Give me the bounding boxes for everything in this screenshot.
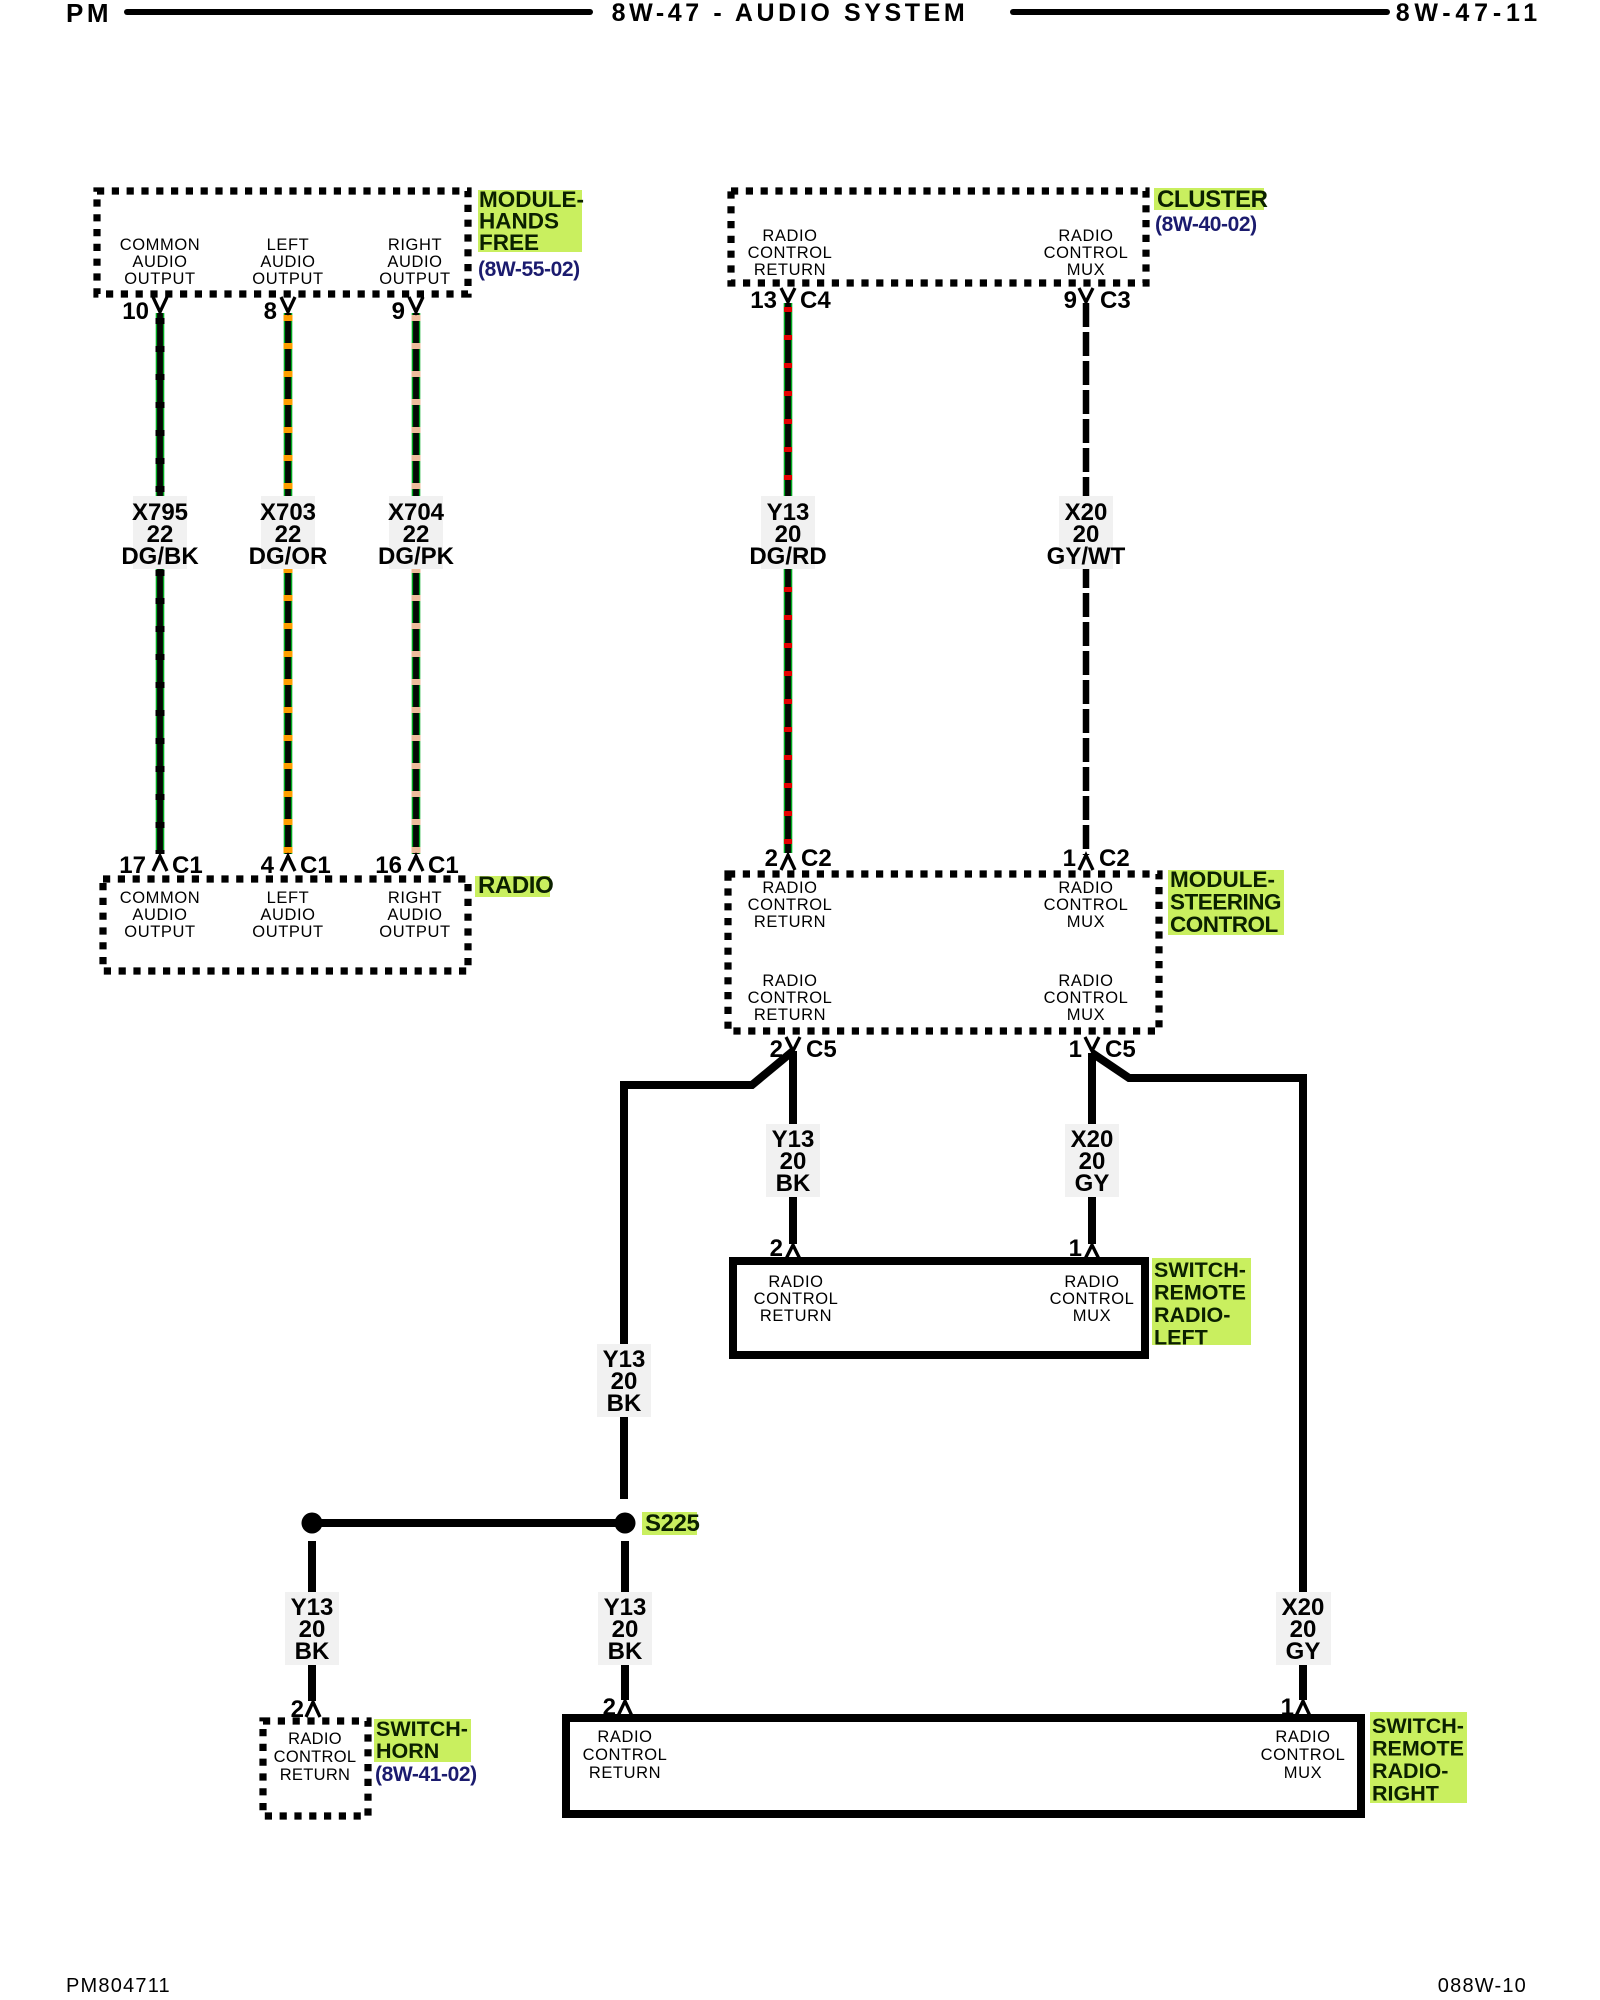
svg-text:1: 1 <box>1281 1694 1294 1721</box>
svg-text:CONTROL: CONTROL <box>1044 989 1129 1007</box>
svg-text:STEERING: STEERING <box>1170 890 1281 915</box>
pin numbers switch remote right <box>603 1694 1294 1721</box>
svg-text:(8W-41-02): (8W-41-02) <box>375 1763 477 1786</box>
pin numbers switch remote left <box>770 1235 1082 1262</box>
svg-text:C2: C2 <box>1099 845 1130 872</box>
svg-text:CONTROL: CONTROL <box>1044 244 1129 262</box>
label radio <box>475 872 553 899</box>
switch remote radio right box text labels <box>583 1728 1346 1782</box>
wire splice S225 horizontal <box>312 1519 625 1527</box>
wire label Y13 20 DG/RD <box>749 496 826 570</box>
switch horn box text labels <box>274 1730 357 1784</box>
wire X704 22 DG/PK (hands free pin 9 to radio pin 16) <box>412 313 421 854</box>
svg-text:2: 2 <box>770 1235 783 1262</box>
svg-text:13: 13 <box>750 287 777 314</box>
svg-text:8W-47-11: 8W-47-11 <box>1396 0 1542 27</box>
svg-text:088W-10: 088W-10 <box>1438 1975 1527 1997</box>
svg-text:MUX: MUX <box>1284 1764 1322 1782</box>
wire Y13 20 BK (steering pin 2 C5 down to switch remote radio left pin 2) <box>789 1051 797 1244</box>
wire label X704 22 DG/PK <box>378 496 455 570</box>
svg-text:C1: C1 <box>300 852 331 879</box>
svg-text:C2: C2 <box>801 845 832 872</box>
svg-text:10: 10 <box>122 298 149 325</box>
wire label X20 20 GY/WT <box>1047 496 1126 570</box>
svg-text:S225: S225 <box>645 1510 700 1537</box>
svg-text:CONTROL: CONTROL <box>1261 1746 1346 1764</box>
wire label X20 20 GY (to switch remote right pin 1) <box>1276 1592 1331 1665</box>
svg-text:DG/BK: DG/BK <box>121 543 199 570</box>
svg-text:COMMON: COMMON <box>120 236 201 254</box>
svg-text:OUTPUT: OUTPUT <box>124 270 195 288</box>
svg-text:DG/RD: DG/RD <box>749 543 826 570</box>
pin terminal steering 2 C2 <box>781 855 795 870</box>
svg-text:1: 1 <box>1069 1036 1082 1063</box>
svg-text:LEFT: LEFT <box>1154 1326 1208 1350</box>
radio box text labels <box>120 889 451 941</box>
svg-text:9: 9 <box>392 298 405 325</box>
wire label X20 20 GY (right C5 leg) <box>1065 1124 1119 1197</box>
svg-text:9: 9 <box>1064 287 1077 314</box>
pin terminal cluster 13 C4 <box>781 288 795 302</box>
label switch remote radio left <box>1152 1258 1251 1350</box>
svg-text:1: 1 <box>1063 845 1076 872</box>
svg-text:PM804711: PM804711 <box>66 1975 171 1997</box>
pin terminal radio 17 C1 <box>153 856 167 871</box>
svg-text:PM: PM <box>66 0 112 28</box>
svg-text:C1: C1 <box>428 852 459 879</box>
pin terminal switch remote left 2 <box>786 1245 800 1259</box>
svg-text:DG/OR: DG/OR <box>249 543 328 570</box>
pin terminal radio 16 C1 <box>409 856 423 871</box>
module hands free box <box>97 191 468 294</box>
svg-text:CONTROL: CONTROL <box>583 1746 668 1764</box>
svg-text:OUTPUT: OUTPUT <box>252 923 323 941</box>
svg-text:RETURN: RETURN <box>754 1006 826 1024</box>
pin terminal steering 1 C5 <box>1085 1037 1099 1051</box>
wire Y13 20 BK (S225 left leg down to switch horn pin 2) <box>308 1541 316 1701</box>
svg-text:17: 17 <box>119 852 146 879</box>
pin terminal switch remote right 2 <box>618 1701 632 1716</box>
pin terminal hands free 9 <box>409 297 423 312</box>
svg-text:AUDIO: AUDIO <box>132 906 187 924</box>
svg-text:GY: GY <box>1075 1170 1110 1197</box>
svg-text:OUTPUT: OUTPUT <box>379 923 450 941</box>
svg-text:BK: BK <box>776 1170 811 1197</box>
wire X20 20 GY/WT (cluster pin 9 C3 to steering module pin 1 C2) <box>1083 303 1090 855</box>
cluster box text labels <box>748 227 1129 279</box>
svg-text:CONTROL: CONTROL <box>1050 1290 1135 1308</box>
svg-text:RETURN: RETURN <box>280 1766 351 1784</box>
svg-text:REMOTE: REMOTE <box>1154 1281 1246 1305</box>
pin numbers hands free <box>122 298 405 325</box>
wire label X703 22 DG/OR <box>249 496 328 570</box>
svg-text:RADIO: RADIO <box>762 879 817 897</box>
svg-text:C1: C1 <box>172 852 203 879</box>
svg-text:C3: C3 <box>1100 287 1131 314</box>
svg-text:AUDIO: AUDIO <box>260 253 315 271</box>
svg-text:DG/PK: DG/PK <box>378 543 455 570</box>
svg-text:CONTROL: CONTROL <box>748 896 833 914</box>
svg-text:16: 16 <box>375 852 402 879</box>
svg-text:RETURN: RETURN <box>760 1307 832 1325</box>
svg-text:LEFT: LEFT <box>267 236 310 254</box>
svg-text:SWITCH-: SWITCH- <box>376 1717 468 1741</box>
pin terminal radio 4 C1 <box>281 856 295 871</box>
label switch remote radio right <box>1370 1712 1467 1806</box>
wire label Y13 20 BK (left C5 leg) <box>766 1124 820 1197</box>
svg-text:2: 2 <box>291 1696 304 1723</box>
svg-text:AUDIO: AUDIO <box>387 906 442 924</box>
svg-text:CONTROL: CONTROL <box>274 1748 357 1766</box>
pin terminal cluster 9 C3 <box>1079 288 1093 302</box>
svg-text:RADIO: RADIO <box>768 1273 823 1291</box>
svg-text:8W-47 - AUDIO SYSTEM: 8W-47 - AUDIO SYSTEM <box>612 0 969 27</box>
switch remote radio right box <box>566 1718 1361 1814</box>
label cluster <box>1154 186 1268 236</box>
wire branch from C5 pin 2 to splice S225 (diagonal, horizontal, vertical) <box>624 1051 793 1499</box>
svg-text:RADIO: RADIO <box>288 1730 342 1748</box>
svg-text:OUTPUT: OUTPUT <box>379 270 450 288</box>
splice dot S225 <box>615 1513 636 1534</box>
svg-text:GY: GY <box>1286 1638 1321 1665</box>
svg-text:RIGHT: RIGHT <box>1372 1782 1439 1806</box>
svg-text:MODULE-: MODULE- <box>1170 867 1275 892</box>
module steering control box <box>728 874 1159 1031</box>
hands free box text labels <box>120 236 451 288</box>
svg-text:SWITCH-: SWITCH- <box>1372 1714 1464 1738</box>
svg-text:SWITCH-: SWITCH- <box>1154 1258 1246 1282</box>
svg-text:CONTROL: CONTROL <box>754 1290 839 1308</box>
svg-text:BK: BK <box>295 1638 330 1665</box>
svg-text:HORN: HORN <box>376 1739 439 1763</box>
svg-text:C5: C5 <box>1105 1036 1136 1063</box>
svg-text:2: 2 <box>770 1036 783 1063</box>
pin terminal steering 1 C2 <box>1079 855 1093 870</box>
svg-text:2: 2 <box>603 1694 616 1721</box>
pin numbers cluster <box>750 287 1130 314</box>
wire label Y13 20 BK (to switch remote right pin 2) <box>598 1592 652 1665</box>
label module steering control <box>1168 867 1284 937</box>
wire label Y13 20 BK (above S225) <box>597 1344 651 1417</box>
wire Y13 20 BK (S225 down to switch remote radio right pin 2) <box>621 1541 629 1700</box>
pin numbers steering top <box>765 845 1130 872</box>
svg-text:C4: C4 <box>800 287 831 314</box>
svg-text:8: 8 <box>264 298 277 325</box>
svg-text:REMOTE: REMOTE <box>1372 1737 1464 1761</box>
svg-text:RIGHT: RIGHT <box>388 236 442 254</box>
svg-text:CONTROL: CONTROL <box>748 244 833 262</box>
svg-text:CONTROL: CONTROL <box>1170 912 1278 937</box>
svg-text:2: 2 <box>765 845 778 872</box>
header rule right <box>1013 9 1387 15</box>
pin terminal hands free 10 <box>153 297 167 312</box>
svg-text:1: 1 <box>1069 1235 1082 1262</box>
switch horn box <box>263 1721 368 1816</box>
wire X20 20 GY (steering pin 1 C5 down to switch remote radio left pin 1) <box>1088 1053 1096 1244</box>
svg-text:RIGHT: RIGHT <box>388 889 442 907</box>
wire X795 22 DG/BK (hands free pin 10 to radio pin 17) <box>156 313 165 854</box>
pin terminal steering 2 C5 <box>786 1037 800 1051</box>
svg-text:RADIO: RADIO <box>478 872 553 899</box>
pin terminal hands free 8 <box>281 297 295 312</box>
wire X703 22 DG/OR (hands free pin 8 to radio pin 4) <box>284 313 293 854</box>
switch remote radio left box <box>733 1261 1145 1355</box>
pin terminal switch remote left 1 <box>1085 1245 1099 1259</box>
svg-text:FREE: FREE <box>479 230 539 255</box>
svg-text:RADIO-: RADIO- <box>1372 1759 1448 1783</box>
svg-text:AUDIO: AUDIO <box>260 906 315 924</box>
svg-text:RADIO: RADIO <box>762 227 817 245</box>
svg-text:RADIO: RADIO <box>1064 1273 1119 1291</box>
svg-text:LEFT: LEFT <box>267 889 310 907</box>
splice dot left <box>302 1513 323 1534</box>
cluster box <box>731 191 1146 283</box>
svg-text:OUTPUT: OUTPUT <box>252 270 323 288</box>
radio box <box>103 879 468 971</box>
svg-text:RADIO: RADIO <box>1058 879 1113 897</box>
svg-text:CONTROL: CONTROL <box>1044 896 1129 914</box>
svg-text:RETURN: RETURN <box>754 913 826 931</box>
svg-text:CLUSTER: CLUSTER <box>1157 186 1268 213</box>
svg-text:RADIO: RADIO <box>597 1728 652 1746</box>
pin terminal switch remote right 1 <box>1296 1701 1310 1716</box>
svg-text:MUX: MUX <box>1073 1307 1111 1325</box>
svg-text:RADIO: RADIO <box>762 972 817 990</box>
label switch horn <box>374 1717 477 1786</box>
svg-text:C5: C5 <box>806 1036 837 1063</box>
svg-text:RADIO: RADIO <box>1275 1728 1330 1746</box>
svg-text:RETURN: RETURN <box>589 1764 661 1782</box>
svg-text:RADIO: RADIO <box>1058 227 1113 245</box>
svg-text:BK: BK <box>607 1390 642 1417</box>
wire label Y13 20 BK (left leg to horn) <box>285 1592 339 1665</box>
svg-text:CONTROL: CONTROL <box>748 989 833 1007</box>
svg-text:MUX: MUX <box>1067 261 1105 279</box>
wire label X795 22 DG/BK <box>121 496 199 570</box>
steering control box text labels <box>748 879 1129 1024</box>
svg-text:MUX: MUX <box>1067 913 1105 931</box>
svg-text:BK: BK <box>608 1638 643 1665</box>
pin numbers steering bottom <box>770 1036 1136 1063</box>
svg-text:RETURN: RETURN <box>754 261 826 279</box>
label splice S225 <box>642 1510 700 1537</box>
header rule left <box>127 9 590 15</box>
svg-text:COMMON: COMMON <box>120 889 201 907</box>
pin numbers radio <box>119 852 458 879</box>
svg-text:(8W-40-02): (8W-40-02) <box>1155 213 1257 236</box>
svg-text:4: 4 <box>261 852 275 879</box>
svg-text:GY/WT: GY/WT <box>1047 543 1126 570</box>
svg-text:AUDIO: AUDIO <box>132 253 187 271</box>
pin terminal switch horn 2 <box>306 1702 320 1717</box>
svg-text:AUDIO: AUDIO <box>387 253 442 271</box>
svg-text:RADIO-: RADIO- <box>1154 1303 1230 1327</box>
svg-text:RADIO: RADIO <box>1058 972 1113 990</box>
svg-text:OUTPUT: OUTPUT <box>124 923 195 941</box>
wire branch from C5 pin 1 to switch remote radio right (diagonal, horizontal, long vertical) <box>1092 1053 1303 1700</box>
wire Y13 20 DG/RD (cluster pin 13 C4 to steering module pin 2 C2) <box>784 303 793 853</box>
svg-text:MUX: MUX <box>1067 1006 1105 1024</box>
svg-text:(8W-55-02): (8W-55-02) <box>478 258 580 281</box>
switch remote radio left box text labels <box>754 1273 1135 1325</box>
label module hands free <box>478 187 584 281</box>
